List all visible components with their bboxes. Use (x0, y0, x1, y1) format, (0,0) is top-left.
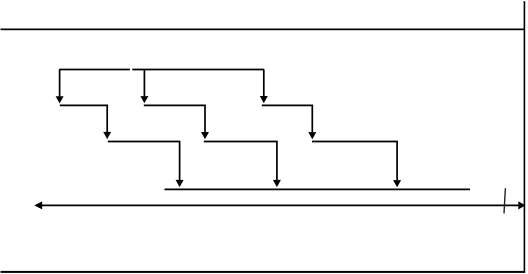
level-1 arrow 1 (56, 70, 64, 104)
level-1 bracket line left segment (59, 69, 130, 71)
top rule (1, 29, 526, 31)
level-2 elbow 2 (144, 105, 209, 139)
level-3 elbow 3 (312, 142, 401, 188)
level-1 arrow 3 (260, 70, 268, 104)
level-2 elbow 1 (60, 105, 111, 139)
span double arrow (34, 201, 525, 209)
level-2 elbow 3 (262, 105, 317, 139)
tick mark near right arrowhead (504, 188, 505, 213)
level-3 elbow 2 (204, 142, 281, 188)
level-1 bracket line right segment (132, 69, 264, 71)
level-1 arrow 2 (140, 70, 148, 104)
bottom rule (1, 271, 526, 273)
level-4 destination line (165, 188, 471, 190)
right border (524, 1, 526, 272)
level-3 elbow 1 (108, 142, 184, 188)
